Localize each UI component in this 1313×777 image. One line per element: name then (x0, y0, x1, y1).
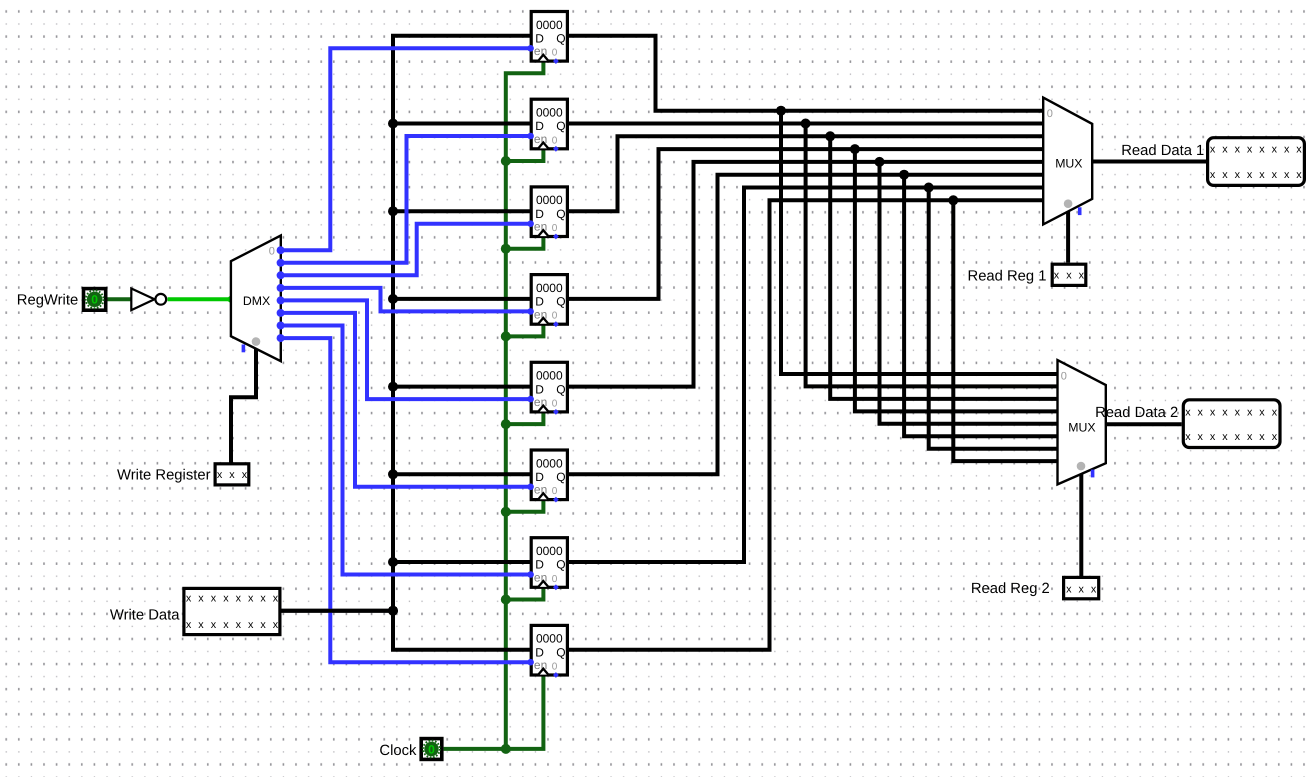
svg-text:x: x (248, 619, 254, 631)
svg-text:x: x (1272, 407, 1278, 419)
svg-text:x: x (1259, 169, 1265, 181)
svg-text:x: x (1284, 169, 1290, 181)
svg-text:x: x (1091, 584, 1097, 596)
svg-text:0000: 0000 (536, 544, 563, 558)
svg-text:0000: 0000 (536, 456, 563, 470)
svg-text:x: x (211, 619, 217, 631)
svg-text:x: x (260, 619, 266, 631)
svg-text:0000: 0000 (536, 193, 563, 207)
svg-text:MUX: MUX (1068, 420, 1095, 434)
svg-text:0: 0 (552, 48, 558, 59)
svg-text:x: x (1235, 431, 1241, 443)
svg-text:x: x (223, 592, 229, 604)
svg-text:x: x (1078, 584, 1084, 596)
svg-text:Write Register: Write Register (117, 468, 211, 484)
svg-text:Read Data 2: Read Data 2 (1095, 405, 1178, 421)
svg-text:Read Reg 1: Read Reg 1 (968, 268, 1047, 284)
svg-text:x: x (1235, 169, 1241, 181)
svg-text:x: x (186, 619, 192, 631)
svg-text:Q: Q (556, 32, 565, 46)
svg-text:x: x (1272, 169, 1278, 181)
svg-text:x: x (186, 592, 192, 604)
svg-text:x: x (1272, 431, 1278, 443)
svg-text:x: x (1272, 143, 1278, 155)
svg-text:x: x (1222, 169, 1228, 181)
svg-text:Read Data 1: Read Data 1 (1121, 143, 1204, 159)
svg-text:x: x (1197, 431, 1203, 443)
svg-text:x: x (1222, 407, 1228, 419)
svg-text:0000: 0000 (536, 18, 563, 32)
svg-text:0: 0 (552, 135, 558, 146)
svg-text:x: x (1197, 407, 1203, 419)
svg-text:x: x (1235, 143, 1241, 155)
svg-text:Q: Q (556, 207, 565, 221)
svg-text:x: x (236, 592, 242, 604)
svg-text:x: x (1210, 407, 1216, 419)
svg-text:x: x (1235, 407, 1241, 419)
svg-text:0: 0 (269, 245, 275, 257)
svg-text:x: x (1210, 143, 1216, 155)
svg-text:x: x (1296, 143, 1302, 155)
svg-text:x: x (1259, 143, 1265, 155)
svg-text:x: x (1054, 270, 1060, 282)
svg-text:Clock: Clock (379, 743, 417, 759)
svg-text:0: 0 (552, 223, 558, 234)
svg-text:x: x (1222, 431, 1228, 443)
svg-text:0: 0 (552, 486, 558, 497)
svg-text:0: 0 (552, 574, 558, 585)
svg-text:x: x (1222, 143, 1228, 155)
svg-text:0: 0 (1061, 371, 1067, 383)
svg-text:x: x (242, 469, 248, 481)
svg-text:0: 0 (552, 311, 558, 322)
svg-text:x: x (248, 592, 254, 604)
svg-text:x: x (198, 619, 204, 631)
svg-text:0000: 0000 (536, 369, 563, 383)
svg-text:x: x (1210, 431, 1216, 443)
svg-text:x: x (1296, 169, 1302, 181)
svg-text:Q: Q (556, 558, 565, 572)
svg-text:x: x (1259, 407, 1265, 419)
svg-text:x: x (1210, 169, 1216, 181)
svg-text:x: x (236, 619, 242, 631)
svg-text:0: 0 (552, 662, 558, 673)
svg-text:x: x (1066, 270, 1072, 282)
svg-text:x: x (1185, 431, 1191, 443)
svg-text:x: x (217, 469, 223, 481)
svg-text:Q: Q (556, 470, 565, 484)
svg-text:Q: Q (556, 295, 565, 309)
svg-text:0: 0 (91, 293, 98, 307)
svg-text:Q: Q (556, 119, 565, 133)
svg-text:Write Data: Write Data (110, 608, 180, 624)
svg-text:RegWrite: RegWrite (17, 293, 78, 309)
svg-text:0: 0 (1047, 108, 1053, 120)
svg-text:Read Reg 2: Read Reg 2 (971, 581, 1050, 597)
svg-text:0: 0 (552, 398, 558, 409)
svg-text:x: x (1079, 270, 1085, 282)
svg-text:x: x (1259, 431, 1265, 443)
svg-text:x: x (273, 592, 279, 604)
svg-text:x: x (1284, 143, 1290, 155)
svg-text:0: 0 (428, 742, 435, 756)
svg-text:x: x (1247, 169, 1253, 181)
svg-text:x: x (1247, 143, 1253, 155)
svg-text:x: x (260, 592, 266, 604)
svg-text:x: x (1066, 584, 1072, 596)
svg-text:x: x (229, 469, 235, 481)
svg-text:x: x (1247, 431, 1253, 443)
svg-text:0000: 0000 (536, 632, 563, 646)
svg-text:x: x (211, 592, 217, 604)
svg-text:MUX: MUX (1055, 156, 1082, 170)
svg-text:x: x (223, 619, 229, 631)
svg-text:Q: Q (556, 645, 565, 659)
svg-text:DMX: DMX (243, 294, 270, 308)
svg-text:0000: 0000 (536, 281, 563, 295)
svg-text:0000: 0000 (536, 106, 563, 120)
svg-text:x: x (198, 592, 204, 604)
svg-text:Q: Q (556, 382, 565, 396)
svg-text:x: x (273, 619, 279, 631)
svg-text:x: x (1185, 407, 1191, 419)
svg-text:x: x (1247, 407, 1253, 419)
